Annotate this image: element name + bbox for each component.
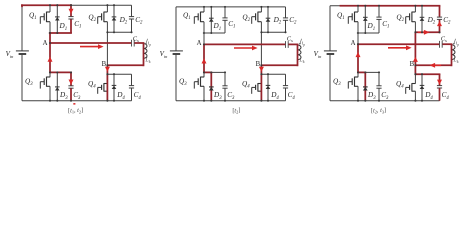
wire bottom rail (330, 100, 440, 102)
wire Q2 source to node B (106, 22, 108, 66)
capacitor C2 branch (439, 6, 441, 17)
red A-B wire (204, 43, 285, 45)
red C1 branch (70, 4, 72, 16)
junction dots (49, 4, 51, 6)
wire Cs to coil (134, 42, 143, 44)
wire top rail (330, 5, 440, 7)
red coil vertical (143, 43, 145, 66)
svg-text:A: A (351, 40, 356, 47)
transistor Q4 (412, 83, 416, 85)
svg-text:Lk: Lk (298, 58, 304, 65)
red Q2 source vertical (414, 32, 416, 65)
transistor Q1 (355, 11, 359, 13)
red node A down vertical (203, 44, 205, 74)
label ip with arrow (146, 39, 148, 44)
wire left rail lower (329, 55, 331, 101)
red D1C1 bottom wire (49, 32, 72, 34)
wire coil vertical (297, 44, 299, 65)
voltage source Vin (170, 50, 183, 52)
wire left rail upper (329, 6, 331, 51)
wire node A to Q3 drain (49, 43, 51, 77)
wire D3 branch (210, 72, 212, 100)
red D2C2 bottom wire (415, 31, 440, 33)
wire D1 branch (210, 7, 212, 33)
wire D3 branch (364, 72, 366, 100)
wire D1 branch (364, 6, 366, 33)
wire left rail upper (21, 5, 23, 51)
wire Q1 source to node A (203, 22, 205, 45)
wire Q2 drain (414, 6, 416, 12)
wire coil vertical (143, 43, 145, 65)
diode D3 over red symbol (363, 86, 368, 88)
wire node B to Q4 drain (106, 65, 108, 83)
junction dots (357, 5, 359, 7)
red D4C4 top wire (415, 73, 440, 75)
voltage source Vin (16, 50, 29, 52)
red Q4 branch (260, 65, 262, 100)
svg-text:[t2, t3]: [t2, t3] (371, 107, 386, 115)
wire coil to node B (107, 64, 143, 66)
wire top rail (22, 4, 132, 6)
wire Q2 source to node B (260, 22, 262, 66)
diode D4 symbol (112, 84, 117, 86)
svg-text:Lk: Lk (144, 58, 150, 65)
capacitor C3 branch (70, 72, 72, 85)
red D3C3 top wire (50, 71, 72, 73)
wire Cs to coil (442, 43, 451, 45)
wire coil vertical (451, 44, 453, 65)
wire D4 branch (267, 74, 269, 101)
diode D3 symbol (363, 86, 368, 88)
wire D4 C4 top (415, 73, 439, 75)
transistor Q4 (258, 83, 262, 85)
wire Q2 drain (106, 5, 108, 12)
wire D3 branch (56, 72, 58, 100)
transistor Q2 (412, 11, 416, 13)
capacitor C4 branch (439, 74, 441, 85)
transistor Q2 (258, 11, 262, 13)
red return wire (261, 64, 298, 66)
diode D2 symbol (266, 17, 271, 19)
red coil vertical (451, 44, 453, 66)
voltage source Vin (324, 50, 337, 52)
wire Q1 drain (49, 5, 51, 12)
wire node A to Cs (50, 42, 131, 44)
wire Q2 source to node B (414, 22, 416, 66)
capacitor C1 branch (70, 5, 72, 16)
wire D3 C3 top (358, 71, 379, 73)
diode D2 symbol (112, 16, 117, 18)
diode D3 over red symbol (209, 86, 214, 88)
transistor Q3 (47, 76, 51, 78)
wire D4 C4 top (107, 73, 131, 75)
wire coil to node B (261, 64, 297, 66)
wire node A to Cs (204, 43, 285, 45)
wire left rail lower (21, 55, 23, 101)
diode D4 symbol (266, 84, 271, 86)
red to D3 (358, 71, 366, 73)
capacitor C4 branch (285, 74, 287, 85)
red top rail (21, 4, 72, 6)
wire D4 branch (421, 74, 423, 101)
wire left rail upper (175, 7, 177, 51)
wire Q1 source to node A (357, 22, 359, 45)
wire D2 branch (421, 6, 423, 33)
svg-text:Lk: Lk (452, 58, 458, 65)
red return wire (107, 64, 144, 66)
wire bottom rail (22, 100, 132, 102)
inductor coil (298, 45, 302, 60)
wire left rail lower (175, 55, 177, 101)
diode D1 symbol (209, 17, 214, 19)
wire D2 C2 bottom (415, 31, 439, 33)
transistor Q3 (355, 76, 359, 78)
wire node B to Q4 drain (260, 65, 262, 83)
wire Q1 source to node A (49, 22, 51, 43)
red D3 branch (210, 72, 212, 100)
capacitor C1 branch (378, 6, 380, 17)
wire Q1 drain (357, 6, 359, 12)
wire coil to node B (415, 64, 451, 66)
wire Q4 source (260, 91, 262, 101)
red node A down vertical (357, 43, 359, 73)
label ip with arrow (300, 39, 302, 44)
wire Q4 source (414, 91, 416, 101)
wire Cs to coil (288, 43, 297, 45)
transistor Q4 (104, 83, 108, 85)
red coil vertical (297, 44, 299, 66)
wire D2 branch (267, 7, 269, 32)
wire D4 branch (113, 74, 115, 101)
svg-text:B: B (410, 61, 415, 68)
capacitor C1 branch (224, 7, 226, 18)
wire node A to Q3 drain (203, 44, 205, 77)
red C3 branch (70, 72, 72, 85)
wire Q1 drain (203, 7, 205, 12)
wire bottom rail (176, 100, 286, 102)
diode D1 symbol (55, 16, 60, 18)
wire node A to Q3 drain (357, 44, 359, 77)
svg-text:A: A (43, 40, 48, 47)
wire Q3 source (203, 86, 205, 100)
diode D1 symbol (363, 16, 368, 18)
wire D2 C2 bottom (107, 31, 131, 33)
red node B to D4C4 wire (414, 65, 416, 75)
wire Q3 source (357, 86, 359, 100)
stray red mark (73, 103, 75, 105)
capacitor Cs series (131, 40, 133, 47)
wire D1 C1 bottom (203, 32, 225, 34)
diode D4 symbol (420, 84, 425, 86)
diode D2 symbol (420, 16, 425, 18)
red return wire (415, 64, 451, 66)
capacitor Cs series (285, 41, 287, 48)
wire D1 C1 bottom (49, 32, 71, 34)
transistor Q2 (104, 11, 108, 13)
red Q4 branch (106, 65, 108, 100)
wire node A to Cs (358, 43, 439, 45)
wire D3 C3 top (204, 71, 225, 73)
wire D2 branch (113, 5, 115, 32)
red D3 branch (364, 72, 366, 100)
label ip with arrow (454, 39, 456, 44)
transistor Q3 (201, 76, 205, 78)
red to D3 (204, 71, 212, 73)
transistor Q1 (47, 11, 51, 13)
capacitor Cs series (439, 41, 441, 48)
wire Q2 drain (260, 7, 262, 12)
svg-text:[t1, t2]: [t1, t2] (68, 107, 83, 115)
transistor Q1 (201, 11, 205, 13)
inductor coil (452, 45, 456, 60)
diode D3 symbol (209, 86, 214, 88)
red C2 branch (439, 6, 441, 17)
wire D2 C2 bottom (261, 31, 285, 33)
capacitor C2 branch (131, 5, 133, 16)
diode D3 symbol (55, 86, 60, 88)
red corner stub (21, 4, 23, 7)
red C4 branch (439, 74, 441, 85)
red A-B wire (50, 42, 131, 44)
inductor coil (144, 44, 148, 59)
capacitor C3 branch (378, 72, 380, 85)
svg-text:B: B (102, 61, 107, 68)
wire Q3 source (49, 86, 51, 100)
red top rail (340, 5, 441, 7)
capacitor C3 branch (224, 72, 226, 85)
wire D4 C4 top (261, 73, 285, 75)
junction dots (203, 6, 205, 8)
capacitor C4 branch (131, 74, 133, 85)
wire D1 branch (56, 5, 58, 33)
wire node B to Q4 drain (414, 65, 416, 83)
wire D1 C1 bottom (357, 32, 379, 34)
capacitor C2 branch (285, 7, 287, 18)
wire top rail (176, 6, 286, 8)
svg-text:B: B (256, 61, 261, 68)
wire Q4 source (106, 91, 108, 101)
wire D3 C3 top (50, 71, 71, 73)
svg-text:A: A (197, 40, 202, 47)
red A-B wire (358, 43, 439, 45)
red node A vertical (49, 32, 51, 73)
